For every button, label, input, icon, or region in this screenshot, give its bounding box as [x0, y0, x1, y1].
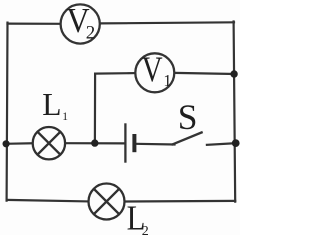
battery short plate [132, 134, 136, 152]
node dot V1-tap junction [91, 139, 98, 146]
lamp L2 [89, 184, 125, 220]
lamp L1 [33, 127, 65, 159]
label L2 [127, 199, 149, 239]
svg-text:V: V [142, 49, 163, 89]
wire top-right horizontal [101, 22, 234, 23]
voltmeter V2 [61, 1, 100, 43]
svg-text:1: 1 [163, 71, 171, 90]
svg-text:S: S [178, 97, 198, 137]
wire top-left horizontal [8, 23, 61, 25]
node dot right-rail switch junction [232, 139, 240, 147]
wire middle row: L1 to battery [66, 142, 124, 144]
wire middle row: battery to switch [136, 143, 174, 146]
node dot right-rail V1 junction [230, 70, 237, 77]
battery long plate [124, 123, 126, 162]
wire middle row: switch right contact to right rail [207, 143, 236, 145]
wire bottom-right horizontal [126, 200, 236, 203]
wire V1 branch right horizontal [175, 73, 234, 74]
wire right vertical [234, 22, 236, 202]
wire left vertical [5, 23, 8, 201]
svg-text:2: 2 [142, 224, 149, 235]
svg-text:L: L [42, 87, 61, 122]
wire V1 branch vertical [94, 74, 96, 141]
wire V1 branch left horizontal [95, 72, 135, 75]
wire middle row: left dot to L1 [5, 142, 32, 145]
switch S lever [172, 132, 203, 145]
svg-text:1: 1 [62, 111, 68, 123]
voltmeter V1 [135, 49, 174, 92]
label L1 [42, 87, 68, 123]
svg-text:2: 2 [86, 23, 96, 44]
node dot left junction [3, 140, 10, 147]
wire bottom-left horizontal [7, 200, 88, 202]
